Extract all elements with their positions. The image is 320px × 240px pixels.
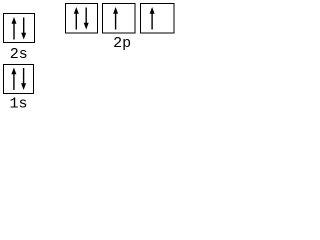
svg-text:2s: 2s	[10, 46, 28, 63]
svg-text:2p: 2p	[113, 35, 131, 52]
svg-text:1s: 1s	[9, 96, 27, 111]
